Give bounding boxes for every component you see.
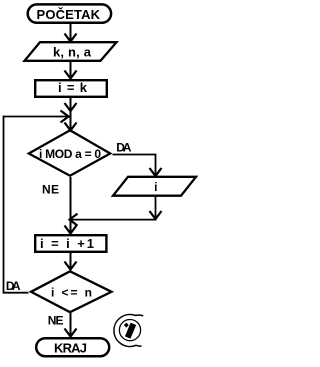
decision i <= n bbox=[31, 271, 112, 312]
svg-text:NE: NE bbox=[48, 313, 64, 327]
svg-text:i = k: i = k bbox=[58, 80, 88, 95]
loopback wire from decision i<=n (DA branch) bbox=[3, 111, 70, 294]
wire DA branch to parallelogram i bbox=[113, 154, 162, 176]
svg-text:POČETAK: POČETAK bbox=[37, 7, 101, 22]
decision i MOD a = 0 bbox=[29, 130, 110, 175]
wire terminal to input bbox=[65, 24, 77, 42]
svg-text:i: i bbox=[154, 180, 157, 194]
svg-text:DA: DA bbox=[6, 279, 21, 293]
svg-text:i MOD a = 0: i MOD a = 0 bbox=[39, 147, 101, 161]
svg-text:i <= n: i <= n bbox=[51, 286, 92, 300]
logo watermark bbox=[114, 314, 143, 346]
process i = k bbox=[35, 80, 107, 97]
svg-text:DA: DA bbox=[116, 141, 132, 155]
terminal KRAJ bbox=[36, 338, 109, 356]
wire decision 1 to process i=i+1 bbox=[65, 177, 77, 234]
output parallelogram i bbox=[113, 177, 196, 196]
wire decision 2 to terminal KRAJ bbox=[65, 313, 77, 337]
wire process to decision 2 bbox=[65, 253, 77, 270]
wire input to process i=k bbox=[65, 61, 77, 79]
svg-text:i = i +1: i = i +1 bbox=[40, 236, 94, 251]
svg-text:k, n, a: k, n, a bbox=[53, 45, 92, 60]
input parallelogram k, n, a bbox=[25, 42, 117, 61]
wire parallelogram i back to main line bbox=[70, 196, 162, 226]
terminal POČETAK bbox=[28, 4, 111, 22]
svg-text:KRAJ: KRAJ bbox=[54, 341, 87, 356]
wire process to junction bbox=[65, 98, 77, 131]
svg-text:NE: NE bbox=[42, 183, 59, 197]
process i = i +1 bbox=[35, 235, 106, 252]
